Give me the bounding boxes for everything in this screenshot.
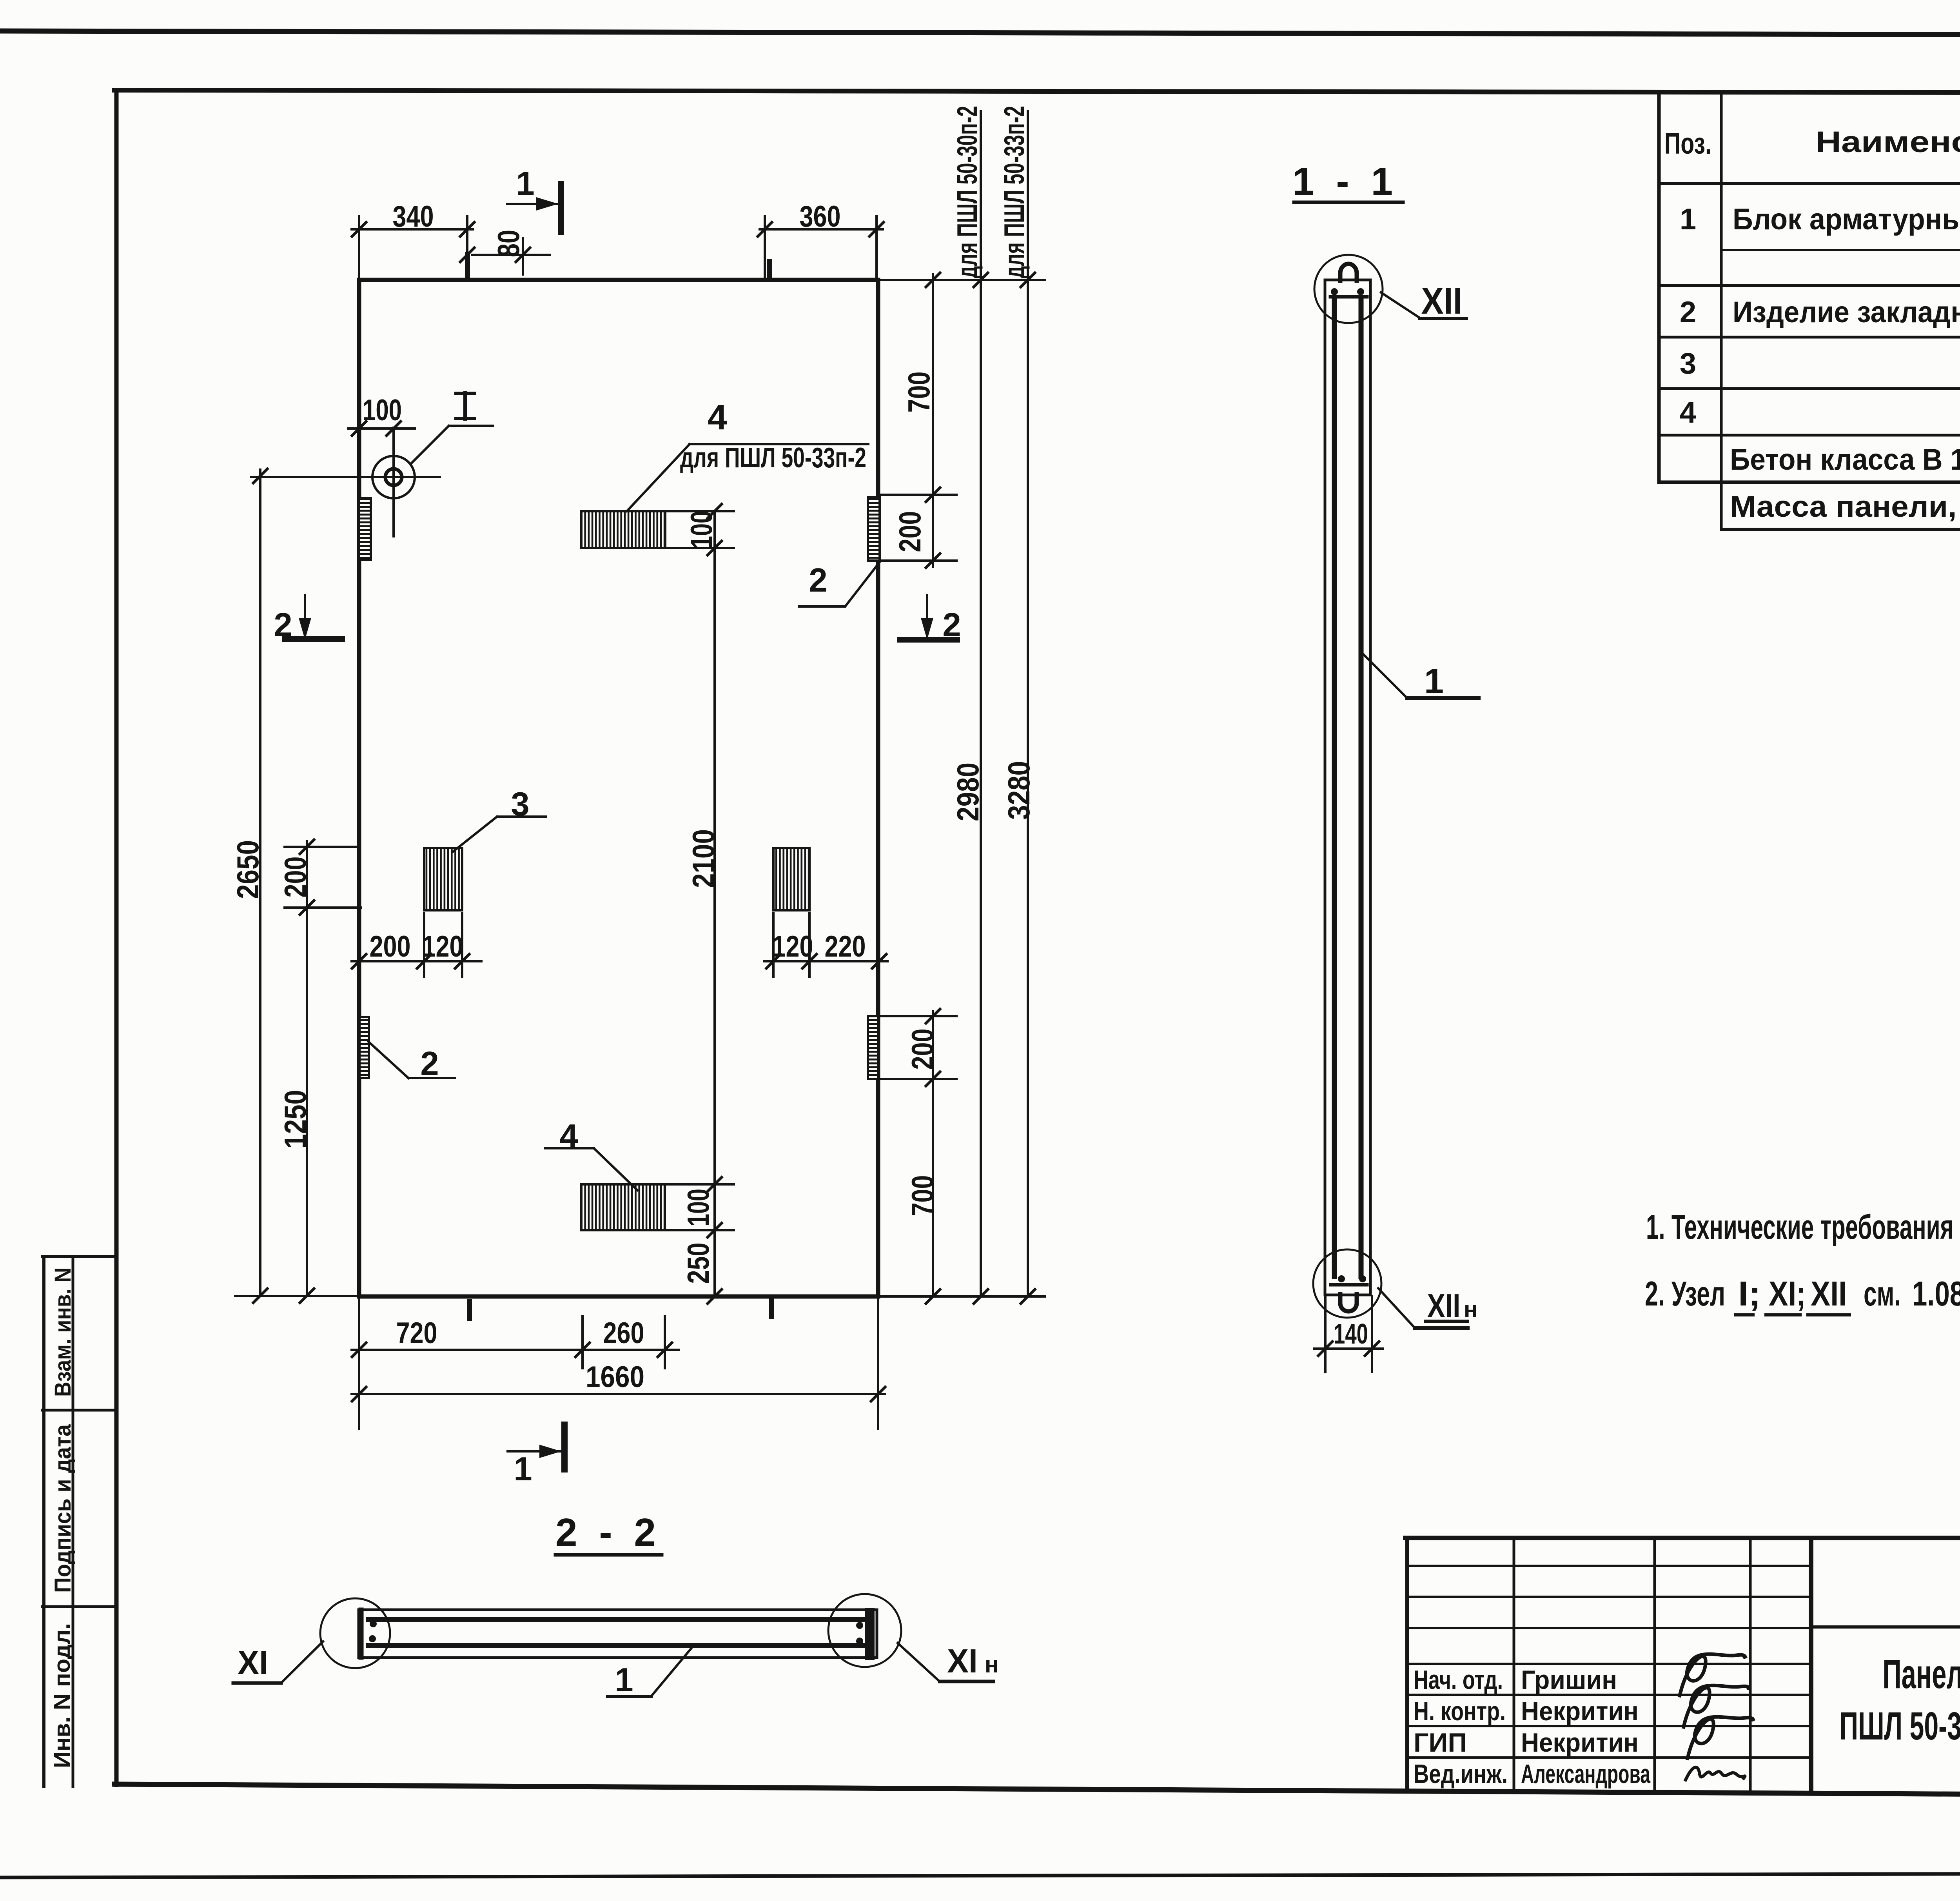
svg-text:120: 120 (422, 930, 463, 963)
svg-text:XII: XII (1427, 1287, 1461, 1325)
svg-text:260: 260 (603, 1316, 644, 1350)
svg-text:720: 720 (396, 1316, 437, 1350)
svg-text:Бетон класса В 15, м3: Бетон класса В 15, м3 (1730, 440, 1960, 476)
svg-text:700: 700 (905, 1175, 940, 1216)
svg-text:1.089.1- 2.1-1-Д.: 1.089.1- 2.1-1-Д. (1912, 1274, 1960, 1313)
svg-text:1. Технические требования см: 1. Технические требования см. 1.089.1-2.… (1646, 1207, 1960, 1246)
svg-text:1660: 1660 (586, 1360, 644, 1394)
svg-text:Поз.: Поз. (1664, 127, 1711, 160)
svg-text:100: 100 (681, 1189, 715, 1226)
svg-text:340: 340 (393, 200, 434, 233)
svg-text:Вед.инж.: Вед.инж. (1414, 1759, 1508, 1789)
svg-text:н: н (985, 1651, 999, 1678)
svg-text:1: 1 (514, 1451, 532, 1488)
svg-text:ПШЛ 50-30п-2; ПШЛ 50-33п-2: ПШЛ 50-30п-2; ПШЛ 50-33п-2 (1840, 1704, 1960, 1748)
svg-text:Блок арматурный БА 52: Блок арматурный БА 52 (1733, 203, 1960, 236)
svg-text:200: 200 (370, 930, 411, 963)
svg-text:4: 4 (708, 398, 727, 437)
svg-text:1: 1 (1424, 662, 1444, 701)
svg-text:120: 120 (772, 930, 813, 963)
svg-text:2: 2 (809, 562, 827, 599)
svg-text:Некритин: Некритин (1521, 1728, 1639, 1758)
svg-text:2980: 2980 (951, 763, 985, 821)
svg-text:XI: XI (238, 1644, 268, 1681)
svg-text:для ПШЛ 50-30п-2: для ПШЛ 50-30п-2 (952, 106, 983, 278)
svg-text:Панель шахты лифта: Панель шахты лифта (1883, 1651, 1960, 1697)
svg-text:100: 100 (684, 511, 719, 548)
svg-text:Наименование: Наименование (1815, 125, 1960, 159)
svg-text:3: 3 (1680, 347, 1696, 380)
svg-text:Александрова: Александрова (1521, 1759, 1651, 1789)
svg-text:XI: XI (947, 1643, 978, 1680)
svg-text:Подпись и дата: Подпись и дата (50, 1424, 76, 1593)
svg-text:2: 2 (1680, 296, 1696, 329)
svg-text:100: 100 (363, 394, 402, 427)
svg-text:XI;: XI; (1769, 1274, 1806, 1313)
svg-text:I;: I; (1738, 1274, 1761, 1313)
svg-text:XII: XII (1421, 280, 1463, 322)
svg-text:2 - 2: 2 - 2 (555, 1511, 661, 1554)
svg-text:1 - 1: 1 - 1 (1292, 160, 1398, 203)
svg-text:Масса панели, т: Масса панели, т (1730, 490, 1960, 523)
svg-text:1: 1 (1680, 203, 1696, 236)
svg-text:для ПШЛ 50-33п-2: для ПШЛ 50-33п-2 (680, 442, 866, 474)
svg-text:2650: 2650 (230, 840, 265, 899)
svg-text:Изделие закладное МН 1: Изделие закладное МН 1 (1733, 296, 1960, 329)
svg-text:Гришин: Гришин (1521, 1665, 1617, 1695)
svg-text:1250: 1250 (278, 1090, 312, 1149)
svg-text:Н. контр.: Н. контр. (1414, 1696, 1506, 1726)
svg-text:140: 140 (1334, 1318, 1368, 1350)
svg-text:700: 700 (902, 372, 936, 413)
svg-text:250: 250 (681, 1243, 715, 1284)
svg-text:2100: 2100 (686, 829, 720, 888)
svg-text:220: 220 (825, 930, 866, 963)
svg-text:360: 360 (800, 200, 841, 233)
svg-text:XII: XII (1811, 1274, 1847, 1313)
svg-text:1: 1 (516, 165, 534, 202)
svg-text:Некритин: Некритин (1521, 1696, 1639, 1726)
svg-text:н: н (1464, 1296, 1478, 1322)
svg-text:80: 80 (491, 230, 526, 257)
svg-text:200: 200 (905, 1029, 940, 1070)
svg-text:200: 200 (278, 857, 312, 898)
svg-text:для ПШЛ 50-33п-2: для ПШЛ 50-33п-2 (999, 106, 1030, 278)
svg-text:Нач. отд.: Нач. отд. (1414, 1665, 1503, 1695)
svg-text:4: 4 (1680, 396, 1696, 429)
svg-text:3280: 3280 (1002, 761, 1036, 820)
svg-text:2. Узел: 2. Узел (1645, 1274, 1725, 1313)
svg-text:Взам. инв. N: Взам. инв. N (50, 1267, 76, 1397)
svg-text:2: 2 (420, 1045, 439, 1082)
svg-text:Инв. N подл.: Инв. N подл. (49, 1623, 75, 1768)
svg-text:1: 1 (615, 1661, 633, 1699)
svg-text:см.: см. (1864, 1274, 1901, 1313)
svg-text:ГИП: ГИП (1414, 1728, 1467, 1758)
svg-text:200: 200 (893, 511, 927, 552)
